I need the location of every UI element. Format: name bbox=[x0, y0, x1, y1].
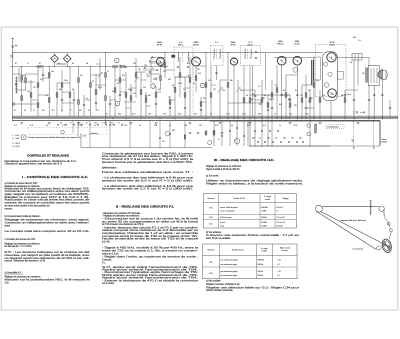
svg-text:2 k2: 2 k2 bbox=[148, 114, 151, 116]
svg-text:0,5: 0,5 bbox=[72, 89, 74, 91]
svg-text:tension fournie par le générat: tension fournie par le générateur doit ê… bbox=[102, 161, 194, 164]
junction bbox=[262, 118, 263, 119]
svg-text:1 k: 1 k bbox=[86, 98, 88, 100]
capacitor bbox=[121, 123, 123, 125]
wire bbox=[130, 84, 132, 116]
trimmer 2 bbox=[208, 141, 212, 145]
svg-text:C21: C21 bbox=[158, 63, 161, 65]
resistor R4 bbox=[30, 93, 32, 98]
svg-text:Répéter l'exercice. Rebrider l: Répéter l'exercice. Rebrider le fer. bbox=[206, 283, 240, 286]
svg-text:C 11: C 11 bbox=[96, 110, 99, 112]
resistor R23 bbox=[140, 90, 142, 95]
svg-text:- La distorsion doit être infé: - La distorsion doit être inférieure à 1… bbox=[102, 185, 194, 188]
tension spring bbox=[383, 210, 385, 217]
resistor R14 bbox=[90, 83, 92, 88]
IF transformer T4 bbox=[174, 47, 193, 77]
capacitor C20 bbox=[296, 94, 298, 96]
section divider dashes bbox=[192, 53, 194, 118]
svg-text:R 63: R 63 bbox=[294, 125, 297, 127]
resistor R12 bbox=[78, 78, 80, 83]
svg-text:de T32 à travers une résistanc: de T32 à travers une résistance de 470 Ω… bbox=[102, 223, 144, 226]
svg-text:EF 93: EF 93 bbox=[231, 45, 236, 47]
svg-text:Mesurer sur le potentiomètre R: Mesurer sur le potentiomètre R61, le fil… bbox=[5, 279, 91, 282]
wire bbox=[160, 66, 162, 91]
svg-text:220: 220 bbox=[203, 98, 206, 100]
tube V2 bbox=[192, 57, 201, 66]
svg-text:T 25 en F 16: T 25 en F 16 bbox=[276, 222, 285, 224]
svg-text:4 ─ 6,3 V: 4 ─ 6,3 V bbox=[12, 146, 20, 148]
wire bbox=[249, 145, 330, 147]
dial cord right edge bbox=[384, 217, 388, 225]
wire bbox=[353, 121, 355, 146]
transistor bbox=[151, 84, 156, 89]
svg-text:C63: C63 bbox=[283, 138, 286, 140]
table reglage antenne bbox=[203, 244, 298, 279]
svg-text:sateur composé d'une résistanc: sateur composé d'une résistance de 4 Ω d… bbox=[102, 229, 199, 232]
antenna terminal bbox=[12, 38, 14, 52]
svg-text:tation.: tation. bbox=[5, 225, 12, 228]
bus HT thick bbox=[12, 117, 398, 119]
wire bbox=[184, 121, 186, 148]
trimmer arrow bbox=[134, 78, 138, 83]
junction bbox=[254, 145, 257, 148]
junction bbox=[104, 84, 107, 87]
junction circle bbox=[12, 103, 15, 106]
svg-text:C 39: C 39 bbox=[184, 125, 187, 127]
junction bbox=[20, 65, 23, 68]
svg-text:6BA6: 6BA6 bbox=[231, 41, 235, 44]
wire bbox=[90, 67, 92, 116]
svg-text:sateur de 1,5 µF.: sateur de 1,5 µF. bbox=[102, 253, 119, 256]
capacitor C17 bbox=[267, 109, 269, 111]
balun bbox=[352, 54, 362, 61]
capacitor C2 bbox=[42, 74, 44, 76]
resistor R32 bbox=[189, 78, 191, 83]
svg-text:Remplacer le haut-parleur par: Remplacer le haut-parleur par une résist… bbox=[5, 160, 77, 163]
capacitor bbox=[213, 130, 215, 132]
junction bbox=[190, 118, 191, 119]
junction bbox=[69, 65, 72, 68]
capacitor C3 bbox=[61, 99, 63, 101]
svg-text:Secteur: Secteur bbox=[382, 138, 388, 141]
tube grid g1 bbox=[324, 62, 328, 66]
wire bbox=[69, 67, 71, 116]
transistor bbox=[200, 83, 205, 88]
resistor R1 bbox=[21, 76, 23, 81]
wire bbox=[62, 91, 70, 93]
svg-text:Régler selon le tableau, à la: Régler selon le tableau, à la hauteur de… bbox=[206, 182, 304, 185]
resistor R61 bbox=[121, 66, 126, 68]
wire bbox=[210, 66, 212, 117]
resistor R29 bbox=[174, 88, 176, 93]
svg-text:HP 5: HP 5 bbox=[353, 37, 357, 39]
wire bbox=[281, 65, 283, 119]
resistor R16 bbox=[105, 73, 107, 78]
svg-text:de sortie: de sortie bbox=[282, 249, 288, 252]
svg-text:2n2: 2n2 bbox=[133, 93, 136, 95]
svg-text:EL 90: EL 90 bbox=[295, 43, 300, 45]
wire bbox=[125, 72, 127, 116]
svg-text:- Réglage de puissance au maxi: - Réglage de puissance au maximum. bbox=[102, 216, 140, 218]
wire bbox=[353, 60, 355, 119]
svg-text:47 k: 47 k bbox=[122, 75, 125, 77]
svg-text:47 k: 47 k bbox=[295, 90, 298, 92]
capacitor bbox=[169, 133, 171, 135]
svg-text:Régler le courant par R47 à: Régler le courant par R47 à 10 mA ± 1 %. bbox=[5, 196, 91, 199]
svg-text:au point 32 du compensateur et: au point 32 du compensateur et relier ce… bbox=[102, 220, 199, 223]
dial pulley right bbox=[379, 206, 384, 211]
svg-text:0,1: 0,1 bbox=[23, 75, 25, 77]
svg-text:47 k: 47 k bbox=[27, 91, 30, 93]
svg-text:T 2: T 2 bbox=[276, 211, 278, 213]
svg-text:- La chaleureuse des bas infér: - La chaleureuse des bas inférieure à 6 … bbox=[102, 177, 194, 180]
junction bbox=[175, 118, 176, 119]
junction bbox=[114, 99, 117, 102]
svg-text:220: 220 bbox=[294, 105, 297, 107]
resistor R36 bbox=[210, 93, 212, 98]
svg-text:pour minimum du signal: pour minimum du signal bbox=[221, 274, 238, 277]
svg-text:- Déconnecter sur la source I: - Déconnecter sur la source I du centre … bbox=[102, 218, 199, 221]
wire bbox=[261, 80, 263, 146]
capacitor C4 bbox=[73, 99, 75, 101]
capacitor C7 bbox=[109, 103, 111, 105]
wire bbox=[30, 80, 32, 112]
wire bbox=[73, 90, 75, 116]
wire bbox=[114, 67, 116, 117]
svg-text:R 58: R 58 bbox=[215, 125, 218, 127]
junction bbox=[160, 118, 161, 119]
svg-text:mesure de courant et contrôler: mesure de courant et contrôler ainsi les… bbox=[5, 201, 91, 204]
junction bbox=[369, 118, 370, 119]
capacitor C10 bbox=[145, 95, 147, 97]
junction bbox=[228, 118, 229, 119]
svg-text:455 kc: 455 kc bbox=[247, 45, 252, 47]
svg-text:S 9 et 46: S 9 et 46 bbox=[276, 224, 282, 227]
capacitor bbox=[57, 123, 59, 125]
IF transformer T5 bbox=[211, 46, 224, 66]
junction bbox=[89, 65, 92, 68]
resistor R25 bbox=[155, 93, 157, 98]
svg-text:2 ─ 1,4 V: 2 ─ 1,4 V bbox=[12, 138, 20, 140]
capacitor bbox=[280, 141, 282, 143]
svg-text:am: am bbox=[15, 45, 18, 47]
svg-text:G.O.: G.O. bbox=[209, 217, 213, 219]
wire bbox=[169, 96, 171, 116]
svg-text:- Régler dans l'ordre, au maxi: - Régler dans l'ordre, au maximum de ten… bbox=[102, 256, 199, 259]
wire bbox=[174, 77, 176, 116]
svg-text:C64: C64 bbox=[299, 138, 302, 140]
junction bbox=[135, 87, 138, 90]
resistor R27 bbox=[164, 63, 166, 68]
svg-text:R 31: R 31 bbox=[30, 125, 33, 127]
svg-text:C55: C55 bbox=[162, 141, 165, 143]
resistor R41 bbox=[267, 103, 269, 108]
capacitor bbox=[65, 123, 67, 125]
table reglage HF bbox=[204, 194, 297, 229]
output tube EL84 envelope bbox=[323, 52, 338, 101]
capacitor C16 bbox=[254, 95, 256, 97]
wire bbox=[285, 75, 287, 119]
wire bbox=[109, 96, 111, 116]
svg-text:mesure. Tolérances des tension: mesure. Tolérances des tensions ± 10 %. bbox=[5, 260, 46, 263]
wire bbox=[262, 94, 272, 96]
svg-text:2n2: 2n2 bbox=[40, 79, 43, 81]
svg-text:C15: C15 bbox=[133, 63, 136, 65]
junction bbox=[145, 79, 148, 82]
wire bbox=[56, 83, 58, 116]
wire bbox=[140, 72, 142, 116]
capacitor bbox=[97, 123, 99, 125]
wire bbox=[319, 90, 321, 119]
svg-text:Dans les cellules auxiliaires: Dans les cellules auxiliaires que nous '… bbox=[102, 171, 194, 174]
svg-text:Position du C.V.: Position du C.V. bbox=[232, 249, 245, 252]
wire loop bbox=[19, 68, 35, 82]
wire anode to output transformer bbox=[337, 56, 369, 58]
wire bbox=[244, 89, 255, 91]
svg-text:Réglage de puissance au minimu: Réglage de puissance au minimum, sans si… bbox=[5, 220, 91, 222]
svg-text:F.I.,: F.I., bbox=[102, 263, 106, 265]
wire bbox=[72, 121, 74, 133]
svg-text:5,3 MHz: 5,3 MHz bbox=[261, 222, 267, 224]
wire bbox=[243, 66, 245, 119]
svg-text:(plie négatif sur la batterie: (plie négatif sur la batterie et bobines… bbox=[5, 193, 91, 196]
resistor R8 bbox=[48, 98, 50, 103]
svg-text:0,1: 0,1 bbox=[24, 110, 26, 112]
wire bbox=[164, 53, 166, 79]
svg-text:EL 84: EL 84 bbox=[330, 42, 335, 44]
svg-text:C 52: C 52 bbox=[124, 125, 127, 127]
capacitor bbox=[229, 130, 231, 132]
svg-text:160 kHz: 160 kHz bbox=[258, 275, 264, 277]
capacitor C13 bbox=[184, 107, 186, 109]
svg-text:mesurées, par rapport au pôle: mesurées, par rapport au pôle positif de… bbox=[5, 254, 91, 257]
wire bbox=[109, 121, 111, 148]
svg-text:C24: C24 bbox=[163, 71, 166, 73]
wire bbox=[141, 79, 146, 81]
tube V6b bbox=[328, 89, 337, 98]
resistor R15 bbox=[95, 90, 97, 95]
resistor R30 bbox=[179, 73, 181, 78]
wire bbox=[89, 121, 91, 148]
wire bbox=[16, 89, 26, 91]
wire bbox=[95, 74, 97, 110]
wire bbox=[184, 77, 186, 116]
wire bbox=[78, 67, 80, 116]
wire bbox=[306, 107, 314, 109]
svg-text:C 7: C 7 bbox=[70, 110, 73, 112]
capacitor C65 bbox=[221, 132, 223, 134]
wire bbox=[313, 57, 315, 119]
svg-text:Répéter une détection faible s: Répéter une détection faible sur G.O. Ré… bbox=[206, 286, 299, 289]
ground bbox=[189, 122, 192, 124]
capacitor bbox=[254, 130, 256, 132]
wire bbox=[220, 79, 228, 81]
svg-text:Utiliser un branchement de rég: Utiliser un branchement de réglage génér… bbox=[206, 180, 304, 183]
svg-text:6AQ5: 6AQ5 bbox=[295, 40, 300, 43]
wire bbox=[43, 77, 49, 79]
capacitor C19 bbox=[289, 99, 291, 101]
svg-text:C 41: C 41 bbox=[163, 114, 166, 116]
ground bbox=[357, 122, 360, 124]
trimmer arrow bbox=[218, 88, 222, 93]
junction bbox=[267, 145, 270, 148]
resistor R26 bbox=[160, 76, 162, 81]
svg-text:50: 50 bbox=[92, 81, 94, 83]
svg-text:C16: C16 bbox=[94, 122, 97, 124]
coil ladder bbox=[15, 77, 17, 93]
svg-text:G.O.: G.O. bbox=[209, 273, 213, 275]
svg-text:0,5 µ: 0,5 µ bbox=[178, 114, 182, 116]
capacitor C14 bbox=[200, 109, 202, 111]
svg-text:0,5: 0,5 bbox=[158, 89, 160, 91]
wire bbox=[267, 95, 269, 146]
resistor R46 bbox=[301, 98, 303, 103]
wire bbox=[289, 95, 291, 119]
resistor on rail bbox=[38, 66, 42, 68]
svg-text:10: 10 bbox=[118, 122, 120, 124]
wire second rail bbox=[10, 66, 168, 68]
svg-text:composé entre la base de T32 e: composé entre la base de T32 et la masse… bbox=[102, 235, 199, 238]
svg-text:C 1: C 1 bbox=[27, 63, 30, 65]
resistor R3 bbox=[25, 78, 27, 83]
wire bbox=[155, 86, 157, 116]
capacitor bbox=[144, 67, 146, 69]
wire bbox=[149, 121, 151, 148]
svg-text:47k: 47k bbox=[42, 110, 45, 112]
svg-text:R 39: R 39 bbox=[78, 125, 81, 127]
tuning drum bbox=[381, 238, 393, 253]
wire bbox=[296, 65, 298, 119]
wire bbox=[309, 90, 311, 146]
wire bbox=[274, 56, 314, 58]
wire bbox=[115, 79, 126, 81]
svg-text:P.O.: P.O. bbox=[209, 208, 213, 210]
resistor R50 bbox=[319, 98, 321, 103]
junction bbox=[331, 118, 332, 119]
svg-text:R22: R22 bbox=[147, 76, 150, 78]
wire bbox=[120, 91, 126, 93]
svg-text:240 kHz: 240 kHz bbox=[261, 217, 267, 219]
wire bbox=[175, 76, 190, 78]
resistor R17 bbox=[105, 96, 107, 101]
svg-text:C47: C47 bbox=[259, 104, 262, 106]
svg-text:b) Consommation totale de batt: b) Consommation totale de batterie : bbox=[5, 215, 42, 218]
svg-text:2n2: 2n2 bbox=[208, 80, 211, 82]
svg-text:110-245: 110-245 bbox=[382, 141, 388, 143]
svg-text:0,5: 0,5 bbox=[231, 125, 233, 127]
lamp L2 bbox=[307, 132, 311, 136]
svg-text:Raccorder le chue-circuit entr: Raccorder le chue-circuit entre les file… bbox=[5, 199, 91, 202]
wire bbox=[357, 60, 359, 85]
wire bbox=[195, 66, 197, 92]
ground bbox=[104, 122, 107, 124]
svg-text:0,1: 0,1 bbox=[46, 125, 48, 127]
capacitor C24 bbox=[373, 94, 375, 96]
svg-text:Gammes: Gammes bbox=[208, 198, 215, 200]
capacitor C70 bbox=[389, 107, 391, 109]
wire bbox=[185, 87, 190, 89]
svg-text:C61: C61 bbox=[252, 138, 255, 140]
wire bbox=[373, 121, 375, 146]
wire bbox=[170, 99, 175, 101]
pointer clamp bbox=[376, 245, 382, 250]
junction bbox=[261, 145, 264, 148]
svg-text:Réglage: Réglage bbox=[282, 198, 288, 200]
junction bbox=[114, 65, 117, 68]
capacitor C64 bbox=[197, 132, 199, 134]
junction bbox=[37, 65, 40, 68]
svg-text:EF 89: EF 89 bbox=[157, 45, 162, 47]
capacitor bbox=[261, 130, 263, 132]
legend meter symbol bbox=[21, 135, 26, 140]
svg-text:a) Courant de repos des AC 128: a) Courant de repos des AC 128 : bbox=[5, 182, 39, 185]
capacitor C40 bbox=[151, 56, 153, 58]
svg-text:Réglage de puissance au maximu: Réglage de puissance au maximum. bbox=[5, 277, 42, 279]
svg-text:220: 220 bbox=[300, 95, 303, 97]
svg-text:1 M: 1 M bbox=[213, 89, 216, 91]
junction bbox=[206, 118, 207, 119]
svg-text:'2' MHz: '2' MHz bbox=[261, 211, 266, 213]
svg-text:C19: C19 bbox=[110, 122, 113, 124]
wire bbox=[99, 58, 101, 90]
resistor R49 bbox=[313, 83, 315, 88]
wire bbox=[368, 85, 370, 118]
FM unit box bbox=[314, 57, 321, 80]
svg-text:III - REGLAGE DES CIRCUITS: III - REGLAGE DES CIRCUITS H.F. bbox=[214, 159, 274, 162]
svg-text:( 6V6 ): ( 6V6 ) bbox=[329, 44, 335, 46]
wire bbox=[57, 82, 70, 84]
resistor R5 bbox=[37, 83, 39, 88]
svg-text:( châssis ): ( châssis ) bbox=[90, 133, 99, 135]
trimmer bbox=[165, 131, 170, 136]
svg-text:base de T32 ou la masse (L1, M: base de T32 ou la masse (L1, M), à trave… bbox=[102, 250, 198, 253]
mains plug bbox=[353, 147, 355, 149]
svg-text:Le courant total sera compris: Le courant total sera compris entre 16 e… bbox=[5, 230, 91, 233]
svg-text:C 2: C 2 bbox=[33, 110, 36, 112]
svg-text:Réglage de puissance au minimu: Réglage de puissance au minimum. bbox=[5, 186, 41, 188]
wire bbox=[276, 65, 278, 119]
svg-text:C36.: C36. bbox=[5, 283, 10, 285]
capacitor bbox=[156, 69, 158, 71]
trimmer arrow bbox=[308, 98, 312, 103]
resistor R18 bbox=[114, 88, 116, 93]
resistor R80 bbox=[315, 124, 317, 133]
svg-text:2n: 2n bbox=[102, 122, 104, 124]
svg-text:220: 220 bbox=[291, 138, 294, 140]
svg-text:0,5: 0,5 bbox=[246, 95, 248, 97]
pickup diamond PU1 bbox=[51, 55, 59, 63]
wire bbox=[233, 66, 235, 119]
svg-text:Connecter un milliampèremètre: Connecter un milliampèremètre en série a… bbox=[5, 222, 90, 225]
svg-text:C8: C8 bbox=[60, 122, 62, 124]
svg-text:0,5: 0,5 bbox=[350, 62, 352, 64]
transistor bbox=[115, 58, 120, 63]
capacitor bbox=[296, 141, 298, 143]
svg-text:de repos entre anodes et les d: de repos entre anodes et les deux pointe… bbox=[5, 204, 51, 207]
svg-text:0,1: 0,1 bbox=[106, 114, 108, 116]
wire bbox=[159, 121, 161, 148]
wire bbox=[169, 121, 171, 148]
idler 1 bbox=[387, 222, 390, 225]
resistor R45 bbox=[289, 103, 291, 108]
svg-text:pour minimum du signal: pour minimum du signal bbox=[221, 263, 238, 266]
wire bbox=[389, 100, 391, 119]
wire bottom left rail bbox=[81, 147, 212, 149]
wire bbox=[229, 121, 231, 146]
resistor R7 bbox=[48, 73, 50, 78]
svg-text:50: 50 bbox=[264, 95, 266, 97]
svg-text:1 n: 1 n bbox=[94, 125, 96, 127]
